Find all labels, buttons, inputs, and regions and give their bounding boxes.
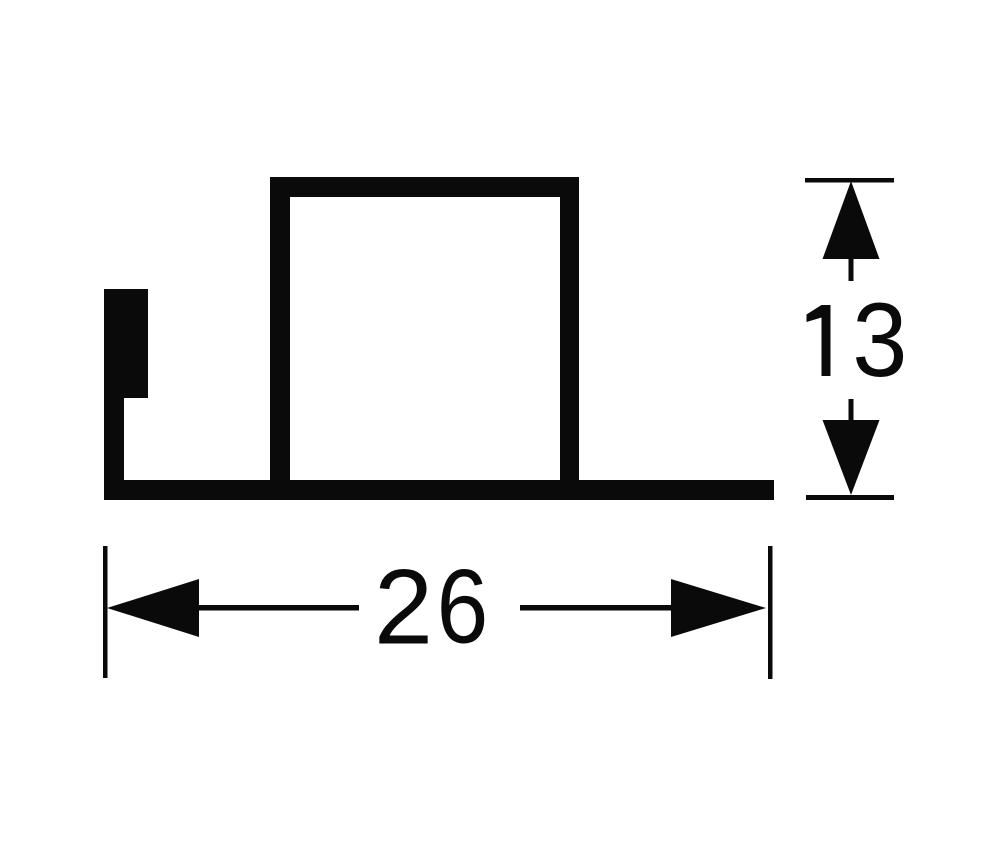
extension line right (26) (768, 546, 773, 679)
dim line right segment (26) (520, 605, 671, 611)
dim line stub lower (13) (849, 399, 854, 420)
profile base flange (104, 480, 774, 500)
dim arrow right (26) (671, 579, 766, 637)
dim line stub upper (13) (849, 259, 854, 281)
svg-text:2: 2 (374, 547, 433, 667)
dim arrow left (26) (107, 579, 199, 637)
extension line top (13) (805, 178, 894, 183)
dim arrow down (13) (823, 420, 880, 495)
dim line left segment (26) (199, 605, 359, 611)
label 13 digit 1 (807, 305, 831, 376)
dim arrow up (13) (823, 181, 880, 259)
svg-text:6: 6 (437, 548, 489, 666)
extension line bottom (13) (806, 495, 894, 500)
extension line left (26) (103, 546, 108, 678)
profile left lip (104, 289, 148, 480)
profile square channel (270, 177, 579, 480)
svg-text:3: 3 (852, 281, 907, 398)
